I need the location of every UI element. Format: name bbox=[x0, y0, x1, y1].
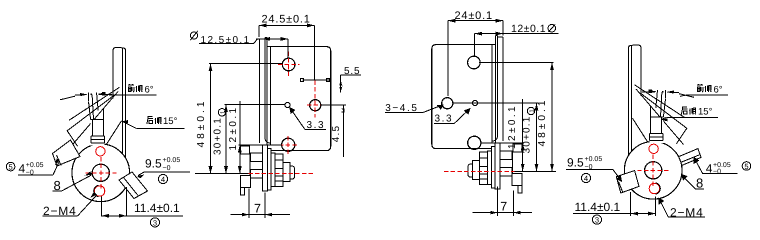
svg-text:24±0.1: 24±0.1 bbox=[455, 10, 493, 22]
hole red crosshairs bbox=[278, 52, 324, 155]
flange disc outline bbox=[72, 144, 130, 202]
pivot centerline bbox=[444, 170, 515, 172]
balloon 5 bbox=[742, 162, 751, 171]
body left edge polyline bbox=[67, 96, 113, 146]
svg-text:9.5: 9.5 bbox=[567, 156, 584, 170]
svg-text:7: 7 bbox=[254, 202, 261, 216]
svg-text:12±0.1: 12±0.1 bbox=[511, 23, 546, 35]
bottom hole thread arc bbox=[94, 185, 99, 197]
left tab bbox=[616, 171, 639, 193]
svg-text:−0: −0 bbox=[585, 164, 593, 171]
dim 11.4±0.1 line bbox=[102, 215, 184, 217]
dim 7 bbox=[473, 187, 533, 217]
svg-text:3: 3 bbox=[595, 216, 599, 225]
neck upper box bbox=[91, 109, 104, 137]
balloon 3 bbox=[592, 215, 601, 224]
balloon 3 bbox=[150, 218, 159, 227]
svg-text:12±0.1: 12±0.1 bbox=[507, 104, 518, 149]
dim 48±0.1 bbox=[209, 64, 282, 174]
svg-text:12±0.1: 12±0.1 bbox=[228, 106, 239, 151]
arm rounded top bbox=[113, 48, 126, 52]
svg-text:15°: 15° bbox=[163, 116, 178, 127]
dim 4.5 bbox=[321, 105, 346, 157]
svg-text:48±0.1: 48±0.1 bbox=[196, 98, 207, 147]
svg-text:4: 4 bbox=[161, 175, 165, 184]
front-view core geometry (shared with view 3) bbox=[240, 38, 330, 195]
nut bbox=[275, 154, 283, 186]
svg-text:+0.05: +0.05 bbox=[163, 157, 181, 164]
svg-text:−0: −0 bbox=[163, 165, 171, 172]
shaft tip bbox=[290, 166, 295, 179]
svg-text:4: 4 bbox=[19, 162, 26, 176]
svg-text:24.5±0.1: 24.5±0.1 bbox=[262, 14, 311, 26]
svg-text:30+0.1: 30+0.1 bbox=[213, 117, 224, 155]
bushing flanges bbox=[251, 153, 263, 161]
plate wall section bbox=[263, 145, 268, 191]
mirrored plate core bbox=[432, 36, 522, 193]
balloon 5 bbox=[6, 162, 15, 171]
svg-text:7: 7 bbox=[500, 200, 507, 214]
balloon 4 bbox=[581, 173, 590, 182]
top hole bbox=[282, 58, 295, 71]
center pivot hole bbox=[92, 164, 109, 181]
right tab bbox=[679, 149, 701, 166]
svg-text:−0: −0 bbox=[713, 168, 721, 175]
arm left edge bbox=[112, 51, 114, 99]
body diagonal A bbox=[69, 87, 120, 120]
svg-text:+0.05: +0.05 bbox=[585, 156, 603, 163]
balloon 1 bbox=[218, 109, 225, 116]
washer bbox=[267, 148, 271, 190]
flange bottom fillet bbox=[265, 137, 271, 144]
svg-text:4.5: 4.5 bbox=[331, 125, 342, 143]
svg-text:5: 5 bbox=[8, 163, 12, 172]
side-view core geometry (shared with view 4) bbox=[67, 48, 129, 202]
left tab bbox=[53, 140, 81, 166]
center hole red crosshair bbox=[86, 157, 117, 189]
svg-text:11.4±0.1: 11.4±0.1 bbox=[575, 200, 621, 214]
svg-text:8: 8 bbox=[696, 176, 703, 191]
angle dim qianqing 6deg bbox=[674, 93, 695, 98]
middle hole bbox=[310, 100, 321, 111]
bolt head bbox=[240, 146, 249, 154]
neck lower box and rungs bbox=[91, 136, 105, 143]
dim dia12.5±0.1 bbox=[190, 32, 197, 39]
neck white mask bbox=[90, 120, 104, 146]
top small hole (red) bbox=[96, 147, 105, 156]
dim 12±0.1 dia bbox=[475, 33, 559, 35]
arm right edge pair bbox=[123, 48, 126, 159]
angle dim houqing 15deg bbox=[123, 121, 185, 128]
plate outline bbox=[267, 47, 331, 151]
tilted strip lines bbox=[89, 95, 94, 120]
dim 12±0.1 vertical bbox=[522, 99, 524, 171]
svg-text:48±0.1: 48±0.1 bbox=[537, 97, 548, 146]
svg-text:3: 3 bbox=[153, 218, 157, 227]
svg-text:11.4±0.1: 11.4±0.1 bbox=[134, 201, 180, 215]
angle dim houqing 15deg bbox=[662, 118, 718, 120]
bottom hole bbox=[282, 138, 295, 151]
svg-text:5: 5 bbox=[744, 162, 748, 171]
dim 48±0.1 bbox=[551, 63, 553, 172]
angle dim qianqing 6deg bbox=[60, 95, 81, 100]
bottom M4 hole (red) bbox=[94, 186, 104, 196]
pivot centerline bbox=[195, 173, 248, 175]
dim 7 bbox=[231, 189, 291, 219]
bent flange verticals bbox=[260, 38, 271, 145]
bottom hole extension bbox=[481, 142, 524, 144]
svg-text:9.5: 9.5 bbox=[145, 156, 162, 170]
svg-text:15°: 15° bbox=[698, 107, 713, 118]
dim 30+0.1 bbox=[225, 104, 285, 173]
mid hole extension bbox=[453, 102, 538, 104]
svg-text:4: 4 bbox=[584, 174, 588, 183]
dim 12±0.1 bbox=[239, 101, 282, 174]
top hole extensions bbox=[475, 34, 554, 63]
right tab bbox=[119, 172, 148, 199]
balloon rotated bbox=[527, 107, 534, 114]
balloon 4 bbox=[158, 174, 167, 183]
mirrored side core bbox=[624, 45, 686, 199]
small hole 3.3 bbox=[285, 102, 290, 107]
shaft bbox=[283, 163, 290, 182]
dim 30+0.1 bbox=[536, 103, 538, 171]
svg-text:6°: 6° bbox=[145, 85, 154, 96]
dim 11.4±0.1 extensions bbox=[102, 187, 127, 216]
svg-text:6°: 6° bbox=[714, 85, 723, 96]
leader continuation S1 bbox=[106, 121, 121, 145]
dim 5.5 bbox=[303, 79, 330, 81]
spacer bbox=[271, 153, 275, 186]
body back diagonal B bbox=[71, 92, 119, 148]
svg-text:+0.05: +0.05 bbox=[26, 162, 44, 169]
